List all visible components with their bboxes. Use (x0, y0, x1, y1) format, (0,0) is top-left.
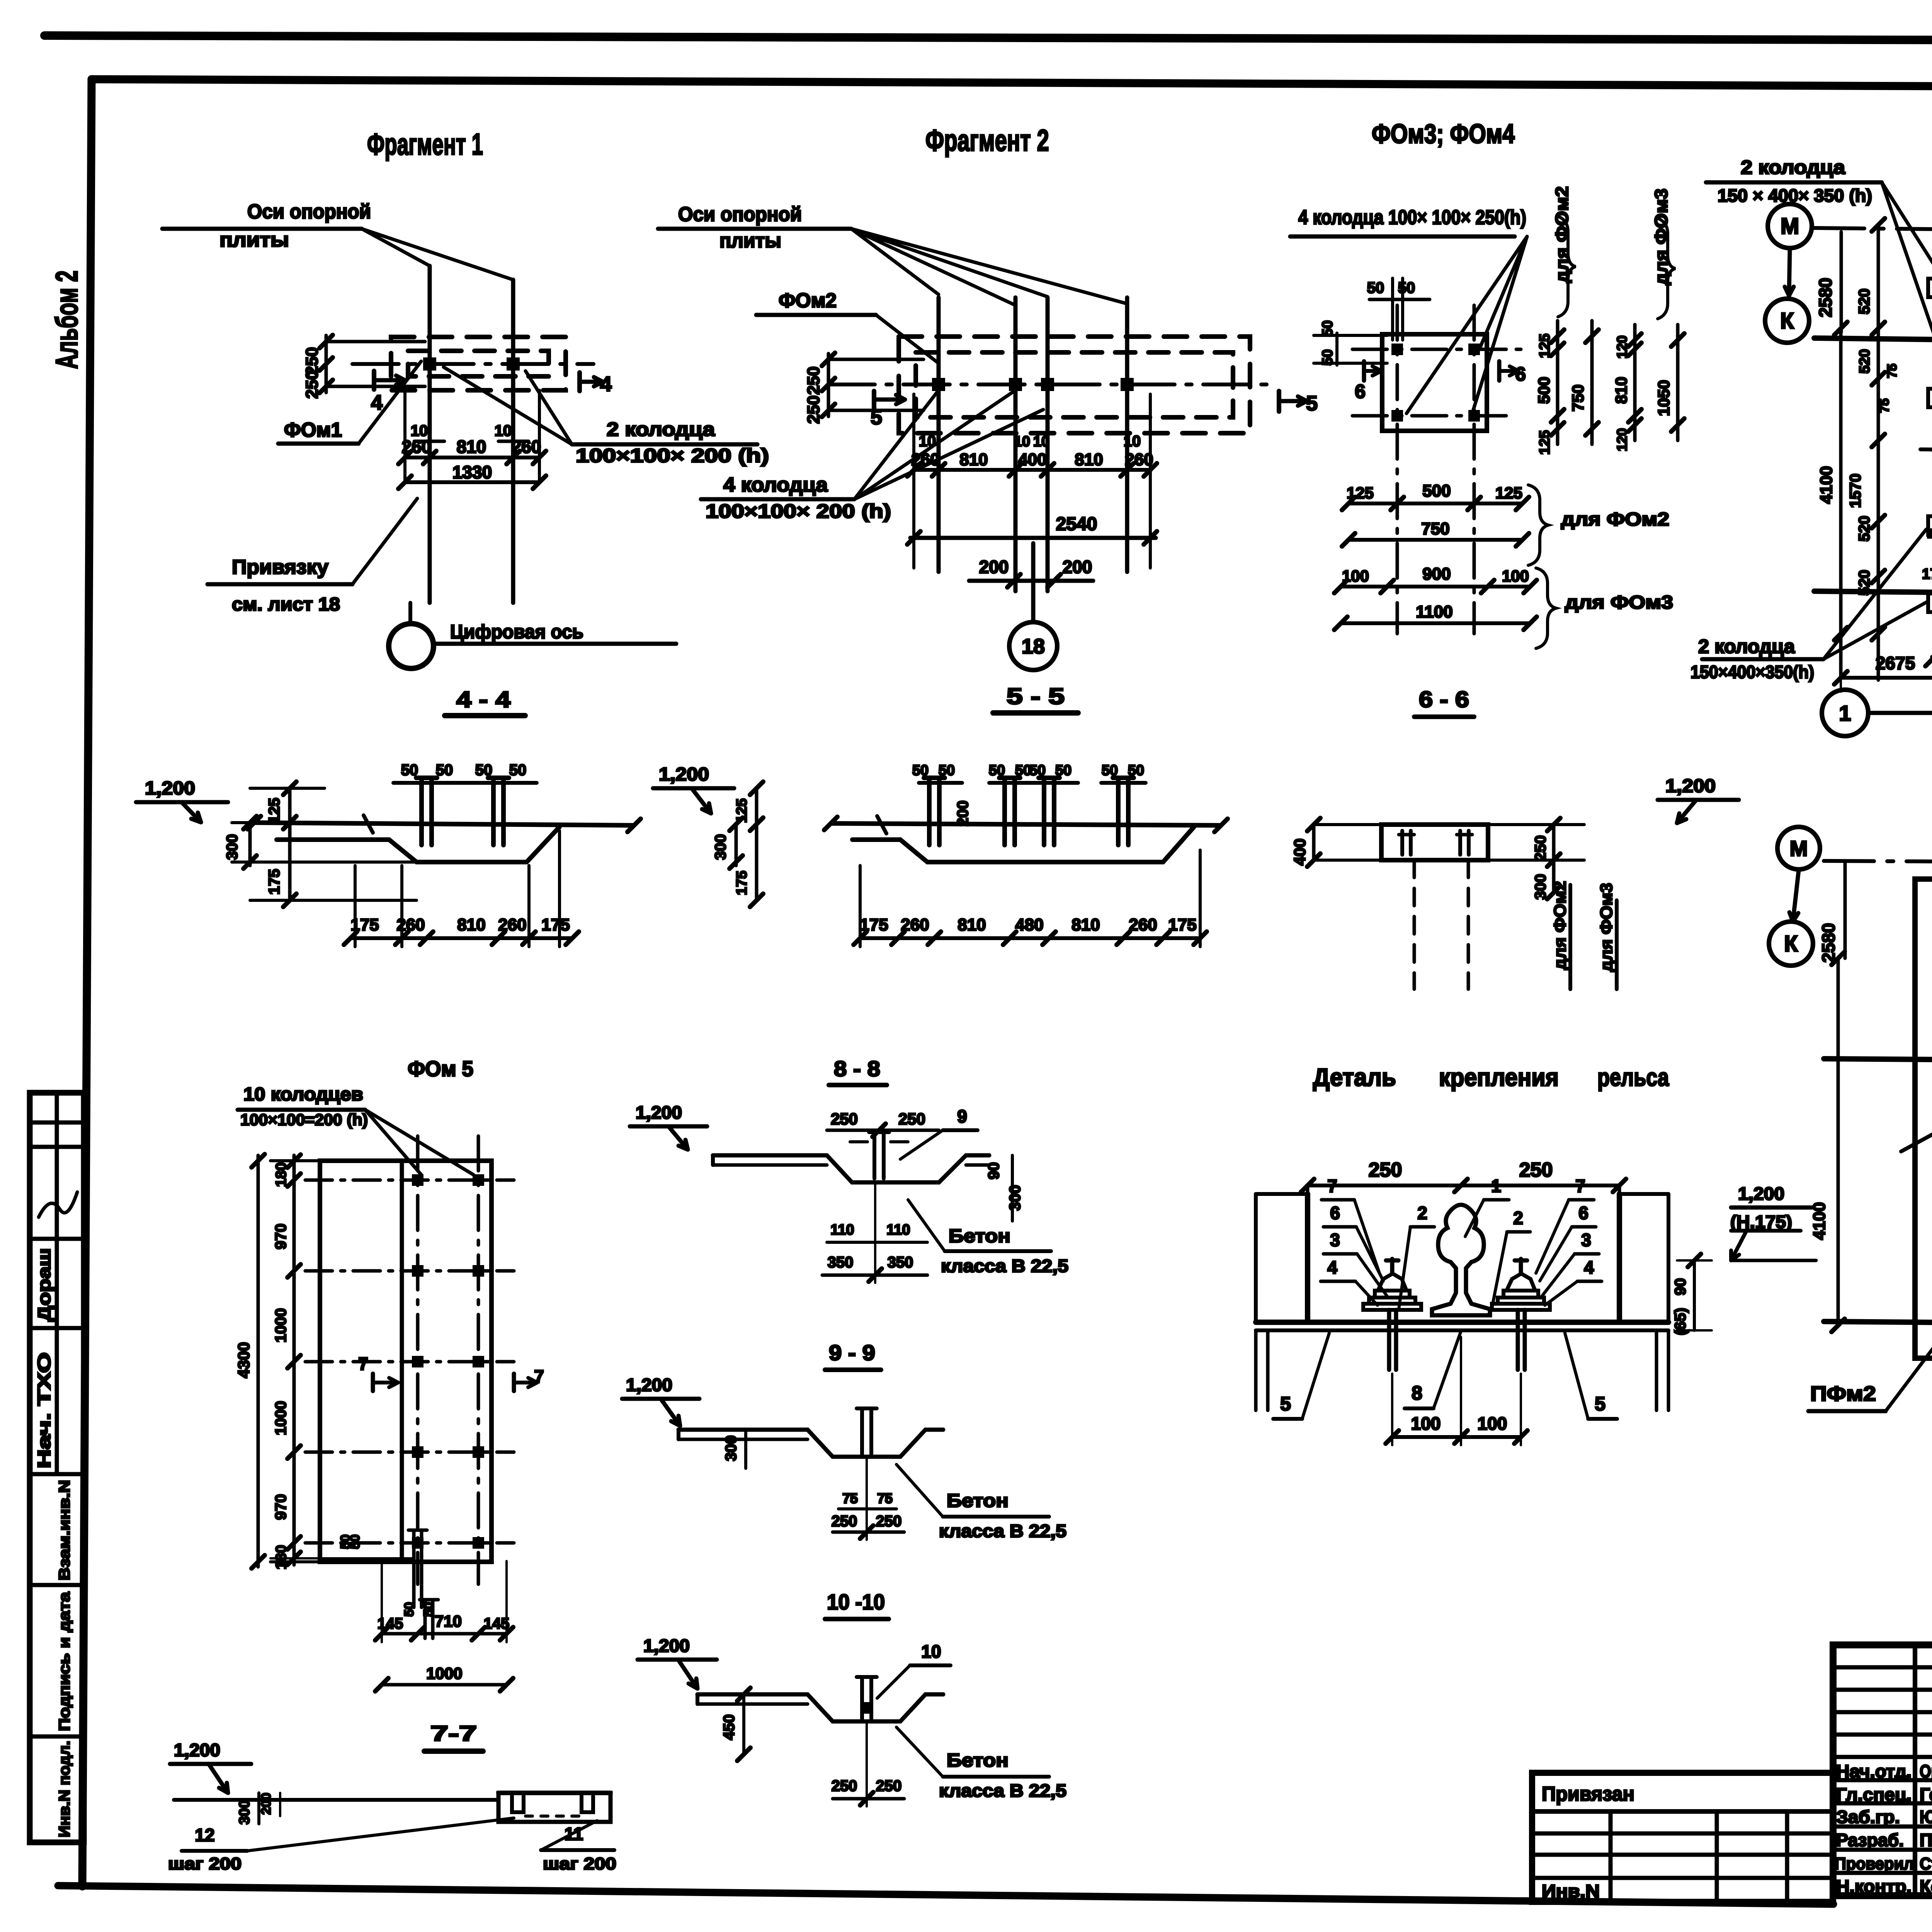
arrow M to K (frag3) (1789, 249, 1790, 296)
svg-text:Оси опорной: Оси опорной (678, 203, 802, 226)
axis verticals (frag2) (937, 298, 941, 572)
svg-text:4 - 4: 4 - 4 (456, 687, 510, 712)
svg-text:50: 50 (402, 1602, 417, 1617)
svg-text:Нач.отд.: Нач.отд. (1836, 1761, 1912, 1781)
svg-text:970: 970 (272, 1494, 289, 1520)
svg-text:250: 250 (804, 366, 823, 395)
dim 1100 (fom34) (1341, 621, 1530, 625)
dim 4100 (frag4) (1837, 958, 1840, 1325)
svg-text:75: 75 (1877, 398, 1892, 413)
svg-text:Деталь: Деталь (1313, 1063, 1396, 1091)
svg-text:100: 100 (1502, 567, 1529, 585)
svg-text:150×400×350(h): 150×400×350(h) (1690, 662, 1814, 682)
leader lines to axes (frag1) (362, 229, 430, 266)
rail profile (rail) (1432, 1205, 1490, 1315)
svg-text:крепления: крепления (1439, 1063, 1559, 1091)
rebar pair (sec 9-9) (860, 1408, 864, 1454)
svg-text:Привязан: Привязан (1542, 1783, 1634, 1805)
rebar hooks (sec 5-5) (927, 778, 932, 845)
svg-text:900: 900 (1422, 565, 1451, 583)
svg-text:50: 50 (912, 762, 929, 779)
inner frame top border (92, 79, 1932, 89)
left wall extension (rail) (1254, 1194, 1258, 1322)
svg-text:75: 75 (877, 1490, 893, 1506)
section mark 5 left (frag2) (872, 391, 876, 408)
inner frame left border (82, 79, 92, 1886)
svg-text:10: 10 (1014, 434, 1030, 450)
axis K line (frag3) (1814, 338, 1932, 348)
slab profile (sec 5-5) (831, 823, 1221, 825)
svg-text:125: 125 (1537, 430, 1553, 454)
dim 200-200 (frag2) (969, 579, 1093, 583)
rebar pairs (sec 6-6) (1400, 831, 1404, 855)
svg-text:120: 120 (1614, 335, 1630, 359)
dim chain 260-810-260 (frag1) (405, 456, 539, 459)
svg-text:50: 50 (475, 762, 493, 779)
right dims 90 65 (rail) (1693, 1260, 1696, 1330)
svg-text:6: 6 (1515, 363, 1526, 385)
svg-text:2 колодца: 2 колодца (1741, 156, 1845, 178)
svg-text:350: 350 (888, 1254, 913, 1271)
section 6 marks (fom34) (1362, 361, 1366, 381)
svg-text:Дораш: Дораш (34, 1248, 54, 1321)
grid bubble 18 (frag2) (1009, 622, 1057, 670)
dim 2580 (frag3) (1840, 232, 1843, 332)
svg-text:10: 10 (921, 1641, 941, 1662)
fastener bolt right (rail) (1516, 1310, 1520, 1370)
section mark 4 left (frag1) (372, 371, 376, 389)
svg-text:250: 250 (303, 347, 321, 375)
svg-text:Гейдман: Гейдман (1920, 1784, 1932, 1804)
svg-text:260: 260 (512, 437, 541, 457)
lower slab break lines (rail) (1254, 1330, 1258, 1410)
svg-text:810: 810 (1075, 450, 1103, 469)
svg-text:1330: 1330 (452, 462, 492, 482)
svg-text:1,200: 1,200 (174, 1740, 220, 1760)
rebar hooks (sec 4-4) (419, 778, 424, 845)
svg-text:175: 175 (734, 871, 750, 895)
svg-text:250: 250 (804, 395, 823, 423)
svg-text:260: 260 (901, 915, 929, 934)
svg-text:4: 4 (1327, 1257, 1337, 1277)
svg-text:для ФОм3: для ФОм3 (1597, 883, 1616, 972)
svg-text:Оси опорной: Оси опорной (247, 201, 371, 223)
leaders (fom5) (365, 1110, 421, 1175)
well symbols (frag3) (1928, 279, 1932, 297)
left dim chain (fom5) (293, 1155, 296, 1565)
svg-text:125: 125 (734, 798, 750, 823)
svg-text:Цифровая ось: Цифровая ось (450, 621, 583, 643)
left dim chain (sec 4-4) (288, 788, 292, 900)
svg-text:810: 810 (1612, 377, 1630, 404)
svg-text:810: 810 (457, 915, 485, 934)
svg-text:1000: 1000 (426, 1664, 462, 1682)
slab profile (sec 9-9) (679, 1430, 943, 1457)
dashed plate rectangles (frag1) (391, 337, 566, 390)
svg-text:300: 300 (224, 834, 241, 860)
svg-text:2675: 2675 (1876, 653, 1915, 673)
anchor squares (fom5) (412, 1174, 423, 1186)
rebar pair (sec 10-10) (860, 1677, 864, 1719)
svg-text:6 - 6: 6 - 6 (1419, 687, 1469, 712)
svg-text:2: 2 (1513, 1208, 1523, 1228)
svg-text:520: 520 (1856, 516, 1873, 542)
left side stamp table (30, 1093, 84, 1842)
svg-text:520: 520 (1856, 289, 1873, 315)
svg-text:6: 6 (1330, 1203, 1340, 1223)
below dims 125-500-125 (fom34) (1349, 502, 1522, 505)
dim 1330 (frag1) (405, 480, 539, 484)
svg-text:50: 50 (1102, 762, 1118, 779)
svg-text:Привязку: Привязку (232, 556, 328, 578)
fastener stack left (rail) (1363, 1304, 1421, 1310)
column axes dash-dot (fom5) (416, 1136, 420, 1584)
svg-text:175`: 175` (1922, 566, 1932, 582)
svg-text:100×100=200 (h): 100×100=200 (h) (240, 1111, 368, 1129)
svg-text:750: 750 (1421, 519, 1449, 538)
svg-text:3: 3 (1581, 1230, 1591, 1250)
для ФОм2 brace (fom34) (1528, 485, 1548, 565)
plan rectangle (fom34) (1382, 334, 1487, 431)
svg-text:5: 5 (871, 406, 882, 429)
svg-text:90: 90 (985, 1162, 1002, 1180)
svg-text:750: 750 (1569, 384, 1587, 412)
svg-text:Проверил: Проверил (1835, 1854, 1914, 1873)
svg-text:плиты: плиты (219, 229, 289, 251)
svg-text:4 колодца 100× 100× 250(h): 4 колодца 100× 100× 250(h) (1298, 206, 1526, 229)
svg-text:480: 480 (1015, 915, 1043, 934)
axis M dash-dot (frag4) (1824, 861, 1932, 862)
svg-text:110: 110 (886, 1222, 910, 1238)
dim 2540 (frag2) (910, 536, 1156, 540)
svg-text:Бетон: Бетон (949, 1226, 1010, 1247)
svg-text:9 - 9: 9 - 9 (829, 1340, 875, 1365)
svg-text:Онуфриенко: Онуфриенко (1920, 1761, 1932, 1781)
left dims (sec 5-5) (755, 788, 759, 900)
svg-text:175: 175 (266, 869, 283, 895)
anchor squares (frag2) (932, 378, 945, 391)
svg-text:7: 7 (1327, 1176, 1337, 1196)
bottom dim chain (sec 4-4) (350, 936, 572, 940)
slab profile (sec 7-7) (174, 1798, 502, 1802)
svg-text:100×100× 200 (h): 100×100× 200 (h) (576, 445, 769, 466)
svg-text:500: 500 (1422, 481, 1451, 500)
svg-text:250: 250 (832, 1777, 857, 1794)
svg-text:5 - 5: 5 - 5 (1007, 684, 1065, 709)
grid circle (frag1) (389, 624, 434, 668)
svg-text:10: 10 (1124, 433, 1141, 450)
svg-text:2: 2 (1417, 1203, 1427, 1223)
svg-text:100: 100 (1411, 1413, 1441, 1434)
right dim chains for FOm2/FOm3 (fom34) (1556, 321, 1560, 444)
left wall rect (frag4) (1915, 879, 1932, 1358)
svg-text:Разраб.: Разраб. (1836, 1830, 1904, 1850)
svg-text:8 - 8: 8 - 8 (834, 1056, 880, 1081)
title block outer box (1833, 1645, 1932, 1896)
svg-text:1570: 1570 (1847, 474, 1864, 508)
bottom dims 145-710-145 (fom5) (382, 1632, 507, 1636)
svg-text:120: 120 (1614, 428, 1630, 451)
svg-text:450: 450 (721, 1714, 738, 1740)
svg-text:4100: 4100 (1817, 466, 1836, 504)
svg-text:для ФОм2: для ФОм2 (1561, 509, 1669, 530)
svg-text:7: 7 (534, 1366, 544, 1386)
svg-text:Инв.N: Инв.N (1542, 1881, 1600, 1901)
svg-text:1000: 1000 (272, 1401, 289, 1435)
svg-text:250: 250 (1532, 835, 1549, 861)
svg-text:М: М (1790, 836, 1808, 861)
svg-text:75: 75 (1885, 364, 1900, 378)
svg-text:125: 125 (266, 798, 283, 824)
svg-text:4100: 4100 (1810, 1202, 1829, 1240)
slab profile (sec 4-4) (254, 823, 634, 825)
svg-text:50: 50 (421, 1602, 436, 1617)
svg-text:175: 175 (860, 915, 888, 934)
svg-text:50: 50 (1055, 762, 1071, 779)
middle strip axis (frag3) (1920, 449, 1932, 455)
svg-text:К: К (1784, 931, 1798, 956)
svg-text:6: 6 (1355, 381, 1366, 402)
svg-text:250: 250 (1369, 1159, 1402, 1181)
svg-text:50: 50 (1398, 279, 1415, 296)
svg-text:50: 50 (1029, 762, 1046, 779)
svg-text:50: 50 (989, 762, 1005, 779)
leaders to wells (frag1) (444, 367, 572, 444)
svg-text:1,200: 1,200 (659, 764, 709, 785)
right dims 250 300 (sec 6-6) (1552, 825, 1556, 893)
svg-text:Бетон: Бетон (947, 1750, 1009, 1771)
left dims 250/250 (frag2) (828, 358, 923, 361)
second stamp table box (1532, 1773, 1833, 1902)
svg-text:400: 400 (1018, 450, 1046, 469)
sheet bottom border (58, 1886, 1833, 1904)
svg-text:для ФОм2: для ФОм2 (1551, 881, 1570, 970)
svg-text:2580: 2580 (1815, 278, 1835, 317)
crosses row mid (frag4) (1824, 1059, 1932, 1065)
svg-text:9: 9 (957, 1106, 967, 1126)
svg-text:1,200: 1,200 (643, 1636, 690, 1656)
svg-text:ФОм2: ФОм2 (779, 289, 837, 312)
svg-text:200: 200 (259, 1793, 274, 1815)
svg-text:200: 200 (979, 557, 1009, 577)
svg-text:10 -10: 10 -10 (827, 1590, 885, 1614)
svg-text:200: 200 (1063, 557, 1092, 577)
svg-text:класса В 22,5: класса В 22,5 (941, 1256, 1068, 1276)
svg-text:1,200: 1,200 (626, 1375, 672, 1395)
svg-text:260: 260 (1129, 915, 1157, 934)
bottom crosses row (frag4) (1824, 1321, 1932, 1327)
bottom strip axis line (frag3) (1814, 591, 1932, 599)
svg-text:Юхтовская: Юхтовская (1920, 1807, 1932, 1827)
svg-text:250: 250 (876, 1777, 902, 1794)
svg-text:10: 10 (495, 422, 512, 439)
svg-text:350: 350 (828, 1254, 854, 1271)
svg-text:180: 180 (273, 1162, 289, 1187)
privyazan row line (1532, 1809, 1833, 1814)
left dim 400 (sec 6-6) (1312, 825, 1316, 860)
svg-text:50: 50 (939, 762, 955, 779)
svg-text:7-7: 7-7 (430, 1721, 477, 1745)
sheet top edge line (44, 36, 1932, 42)
svg-text:125: 125 (1347, 484, 1374, 502)
svg-text:4: 4 (600, 372, 612, 396)
svg-text:100: 100 (1478, 1413, 1507, 1434)
leader fan (frag2) (851, 229, 939, 294)
svg-text:90: 90 (1672, 1278, 1689, 1296)
anchors in slab (sec 7-7) (512, 1796, 524, 1812)
svg-text:300: 300 (236, 1800, 253, 1824)
svg-text:10: 10 (1033, 434, 1049, 450)
left dim 250/250 (frag1) (326, 340, 425, 344)
grid bubble K (frag3) (1765, 299, 1809, 343)
svg-text:ФОм 5: ФОм 5 (408, 1056, 473, 1081)
svg-text:4 колодца: 4 колодца (723, 474, 828, 496)
svg-text:8: 8 (1412, 1382, 1422, 1404)
svg-text:125: 125 (1537, 333, 1553, 358)
dashed plate rects (frag2) (899, 337, 1250, 433)
grid bubble M (frag3) (1768, 204, 1812, 248)
svg-text:260: 260 (911, 450, 939, 469)
dim 2675 (frag3) (1841, 676, 1932, 680)
svg-text:810: 810 (1071, 915, 1100, 934)
svg-text:1,200: 1,200 (145, 778, 195, 799)
bottom dim chain (sec 5-5) (860, 936, 1200, 940)
svg-text:класса В 22,5: класса В 22,5 (939, 1781, 1066, 1801)
svg-text:75: 75 (842, 1490, 858, 1506)
svg-text:710: 710 (435, 1612, 462, 1630)
wide slab lines (rail) (1256, 1320, 1668, 1325)
svg-text:50: 50 (401, 762, 418, 779)
svg-text:2 колодца: 2 колодца (1698, 636, 1795, 657)
svg-text:Степаненко: Степаненко (1920, 1854, 1932, 1873)
svg-text:200: 200 (954, 801, 971, 827)
slab rect (sec 6-6) (1381, 825, 1488, 860)
anchor squares (fom34) (1391, 344, 1403, 355)
section mark 4 right (frag1) (577, 372, 582, 391)
dim 1000 (fom5) (382, 1683, 507, 1687)
center axis dash-dot (frag2) (828, 383, 1273, 386)
svg-text:520: 520 (1857, 349, 1873, 373)
svg-text:2580: 2580 (1818, 923, 1838, 963)
svg-text:7: 7 (358, 1354, 368, 1374)
svg-text:Пивень: Пивень (1920, 1830, 1932, 1850)
grid bubble K (frag4) (1769, 922, 1813, 966)
slab profile (sec 10-10) (697, 1694, 943, 1721)
svg-text:плиты: плиты (719, 230, 781, 252)
svg-text:ПФм2: ПФм2 (1810, 1382, 1876, 1405)
svg-text:18: 18 (1022, 635, 1045, 658)
svg-text:Нач. ТХО: Нач. ТХО (34, 1352, 54, 1468)
svg-text:300: 300 (1532, 874, 1549, 900)
svg-text:810: 810 (959, 450, 988, 469)
svg-text:Фрагмент 1: Фрагмент 1 (367, 127, 483, 161)
svg-text:ФОм1: ФОм1 (284, 419, 342, 441)
svg-text:К: К (1780, 308, 1794, 333)
svg-text:810: 810 (457, 437, 486, 457)
dim 4300 (fom5) (257, 1155, 260, 1567)
plan axes dash-dot (fom34) (1352, 348, 1530, 351)
svg-text:300: 300 (723, 1435, 740, 1461)
svg-text:12: 12 (195, 1825, 214, 1845)
svg-text:3: 3 (1330, 1230, 1340, 1250)
svg-text:1: 1 (1839, 701, 1851, 725)
svg-text:см. лист 18: см. лист 18 (232, 594, 340, 615)
top dim 250-250 (rail) (1308, 1184, 1619, 1187)
svg-text:175: 175 (1168, 915, 1196, 934)
svg-text:10: 10 (919, 433, 936, 450)
svg-text:класса В 22,5: класса В 22,5 (939, 1521, 1066, 1541)
section marks 7 (fom5) (371, 1374, 375, 1391)
для ФОм3 brace (fom34) (1536, 568, 1556, 648)
center dash-dot axis (frag1) (352, 362, 594, 366)
section mark 5 right (frag2) (1277, 391, 1281, 412)
leader fan (fom34) (1479, 236, 1527, 350)
svg-text:50: 50 (348, 1534, 362, 1549)
svg-text:810: 810 (957, 915, 986, 934)
dim 2580 (frag4) (1844, 864, 1847, 958)
svg-text:250: 250 (876, 1513, 902, 1530)
fastener stack right (rail) (1492, 1304, 1550, 1310)
svg-text:Подпись и дата: Подпись и дата (56, 1592, 73, 1731)
svg-text:4300: 4300 (235, 1342, 253, 1378)
grid bubble M (frag4) (1777, 827, 1820, 869)
svg-text:250: 250 (1519, 1159, 1553, 1181)
svg-text:970: 970 (272, 1224, 289, 1250)
svg-text:300: 300 (1007, 1185, 1024, 1211)
svg-text:50: 50 (1015, 762, 1031, 779)
grid bubbles 1 2 (frag3) (1822, 690, 1868, 736)
svg-text:4: 4 (1584, 1257, 1594, 1277)
svg-text:для ФОм3: для ФОм3 (1565, 592, 1673, 613)
wall break marks (frag4) (1901, 1128, 1932, 1151)
internal slab edge line (fom5) (400, 1161, 404, 1562)
svg-text:Взам.инв.N: Взам.инв.N (56, 1480, 73, 1580)
svg-text:400: 400 (1291, 838, 1309, 866)
svg-text:175: 175 (541, 915, 570, 934)
svg-text:100: 100 (1342, 567, 1369, 585)
svg-text:Заб.гр.: Заб.гр. (1836, 1807, 1900, 1827)
svg-text:1,200: 1,200 (1665, 776, 1716, 796)
leaders to squares (frag2) (854, 390, 939, 499)
title block signature columns (1913, 1645, 1917, 1896)
svg-text:5: 5 (1280, 1393, 1291, 1415)
svg-text:Котенко: Котенко (1920, 1876, 1932, 1896)
svg-text:5: 5 (1306, 392, 1318, 415)
dashed drop lines (sec 6-6) (1413, 860, 1416, 989)
svg-text:2 колодца: 2 колодца (607, 418, 715, 440)
svg-text:рельса: рельса (1597, 1063, 1669, 1091)
svg-text:5: 5 (1595, 1393, 1605, 1415)
bottom dims 100 100 (rail) (1392, 1435, 1521, 1439)
svg-text:М: М (1781, 214, 1799, 239)
svg-text:250: 250 (832, 1513, 857, 1530)
svg-text:шаг 200: шаг 200 (543, 1854, 616, 1873)
svg-text:50: 50 (509, 762, 527, 779)
svg-text:1,200: 1,200 (1738, 1184, 1784, 1204)
svg-text:Фрагмент 2: Фрагмент 2 (925, 123, 1049, 157)
title block thin top rows (1833, 1665, 1932, 1670)
svg-text:4: 4 (371, 391, 383, 414)
trough box (rail) (1308, 1194, 1619, 1322)
svg-text:1: 1 (1491, 1176, 1501, 1196)
svg-text:50: 50 (436, 762, 453, 779)
svg-text:300: 300 (712, 834, 729, 860)
dims 100-900-100 (fom34) (1341, 585, 1530, 588)
svg-text:250: 250 (831, 1110, 858, 1128)
anchor bolt pairs bottom (fom5) (412, 1530, 416, 1607)
svg-text:1000: 1000 (272, 1308, 289, 1343)
dim 750 (fom34) (1349, 538, 1522, 542)
